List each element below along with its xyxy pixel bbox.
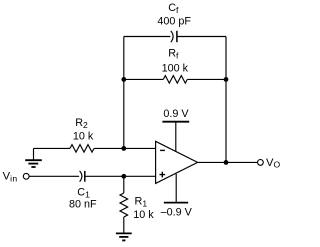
svg-text:10 k: 10 k (133, 209, 154, 221)
power rail -0.9 V bar (164, 202, 188, 204)
svg-text:80 nF: 80 nF (69, 198, 97, 210)
value 100 k (162, 62, 189, 74)
wire: R1 bottom lead (123, 217, 125, 233)
node: junction inverting input (121, 146, 126, 151)
wire: op-amp bottom to -0.9V bar (175, 174, 177, 203)
node: junction left Rf tap (121, 77, 126, 82)
svg-text:C1: C1 (77, 186, 90, 199)
wire: top rail Cf to right vertical (177, 36, 226, 38)
svg-text:–0.9 V: –0.9 V (161, 206, 193, 218)
capacitor C1 symbol (80, 171, 85, 182)
svg-text:Vin: Vin (3, 171, 18, 184)
terminal Vin open circle (23, 173, 29, 179)
svg-text:0.9 V: 0.9 V (163, 108, 189, 120)
ground (R2 input ground) (25, 148, 42, 167)
wire: R2 to op-amp inverting input (94, 147, 156, 149)
value 80 nF (69, 198, 97, 210)
value 400 pF (157, 15, 191, 27)
wire: op-amp output to Vo terminal (198, 161, 258, 163)
wire: ground to R2 (34, 147, 71, 149)
svg-text:R1: R1 (135, 196, 148, 209)
resistor Rf zigzag (163, 76, 187, 84)
wire: Rf right lead (187, 78, 226, 80)
wire: top rail left lead to Cf (124, 36, 171, 38)
op-amp minus pin label (160, 149, 165, 151)
wire: Vin to C1 (29, 175, 79, 177)
svg-text:10 k: 10 k (73, 131, 94, 143)
resistor R1 zigzag (vertical) (120, 193, 128, 217)
wire: +0.9V bar to op-amp top (175, 122, 177, 152)
node: junction output / feedback (224, 160, 229, 165)
label R1 (135, 196, 148, 209)
svg-text:R2: R2 (75, 117, 88, 130)
power rail +0.9 V bar (162, 121, 189, 123)
ground (R1 ground) (116, 233, 132, 240)
wire: left feedback vertical (123, 37, 125, 149)
svg-text:100 k: 100 k (162, 62, 189, 74)
wire: R1 top lead (123, 176, 125, 193)
value 10 k (R1) (133, 209, 154, 221)
svg-text:VO: VO (266, 157, 280, 170)
value 10 k (R2) (73, 131, 94, 143)
node: junction non-inverting input / R1 tap (121, 174, 126, 179)
label C1 (77, 186, 90, 199)
label Vo (266, 157, 280, 170)
op-amp plus pin label (160, 172, 166, 178)
label Rf (168, 48, 179, 61)
svg-text:Cf: Cf (168, 2, 179, 15)
terminal Vo open circle (258, 160, 264, 166)
svg-text:Rf: Rf (168, 48, 179, 61)
op-amp U1 triangle (156, 141, 198, 183)
wire: C1 to op-amp non-inverting input (85, 175, 156, 177)
label R2 (75, 117, 88, 130)
label Vin (3, 171, 18, 184)
capacitor C_f symbol (171, 31, 177, 42)
label -0.9 V supply (161, 206, 193, 218)
wire: right feedback vertical (225, 37, 227, 163)
svg-text:400 pF: 400 pF (157, 15, 191, 27)
resistor R2 zigzag (70, 145, 94, 153)
wire: Rf left lead (124, 78, 164, 80)
node: junction right Rf tap (224, 77, 229, 82)
label 0.9 V supply (163, 108, 189, 120)
label Cf (168, 2, 179, 15)
